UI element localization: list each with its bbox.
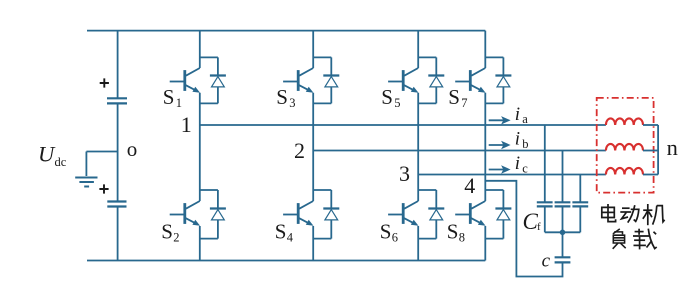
wire DC-link vertical [117, 31, 119, 261]
capacitor Cf3 [572, 202, 588, 206]
svg-text:c: c [522, 161, 528, 175]
wire drop phase c to Cf3 [579, 175, 581, 203]
svg-text:S: S [448, 85, 460, 109]
wire star to cap c [562, 232, 564, 257]
wire drop phase a to Cf1 [544, 125, 546, 202]
svg-text:S: S [161, 220, 173, 244]
diode D4 antiparallel with S4 [313, 190, 339, 239]
svg-text:b: b [522, 137, 528, 151]
svg-text:8: 8 [459, 231, 465, 245]
svg-text:7: 7 [461, 96, 467, 110]
plus sign upper [100, 78, 109, 87]
svg-text:4: 4 [287, 231, 294, 245]
label motor load text 载 [633, 229, 657, 250]
diode D3 antiparallel with S3 [313, 57, 339, 103]
wire top DC rail [87, 30, 485, 32]
IGBT S3 leg 2 upper [283, 31, 313, 261]
svg-text:dc: dc [55, 155, 67, 169]
capacitor Cf1 [537, 202, 553, 206]
capacitor c [555, 257, 571, 262]
svg-text:S: S [381, 85, 393, 109]
inductor coil phase c [606, 168, 643, 175]
wire drop phase b to Cf2 [562, 151, 564, 203]
wire o-node to ground [86, 152, 117, 177]
IGBT S1 leg 1 upper [170, 31, 200, 261]
svg-text:U: U [38, 142, 56, 167]
svg-text:i: i [515, 129, 520, 150]
arrow ic [489, 165, 511, 173]
diode D2 antiparallel with S2 [200, 190, 226, 239]
wire filter star bar [545, 231, 581, 233]
label motor load text 动 [620, 205, 639, 222]
label motor load text 电 [602, 204, 616, 222]
wire node 4 to filter neutral cap [485, 181, 562, 277]
junction star point [560, 230, 566, 236]
wire phase c (node 3) [418, 174, 606, 176]
diode D6 antiparallel with S6 [418, 190, 444, 239]
wire coil c to neutral bus [643, 174, 658, 176]
diode D1 antiparallel with S1 [200, 57, 226, 103]
plus sign lower [99, 184, 108, 193]
svg-text:S: S [276, 85, 288, 109]
diode D7 antiparallel with S7 [485, 57, 511, 103]
svg-text:i: i [515, 104, 520, 125]
capacitor upper DC-link [107, 98, 127, 103]
wire bottom DC rail [87, 260, 485, 262]
svg-text:o: o [127, 137, 138, 161]
capacitor lower DC-link [107, 202, 126, 207]
capacitor Cf2 [555, 202, 571, 206]
svg-text:S: S [275, 220, 287, 244]
svg-text:2: 2 [173, 231, 179, 245]
svg-text:n: n [667, 135, 678, 160]
wire neutral bus n [657, 125, 659, 175]
IGBT S2 leg 1 lower [170, 201, 200, 224]
svg-text:S: S [380, 220, 392, 244]
label motor load text 负 [613, 229, 626, 249]
wire coil b to neutral bus [643, 150, 658, 152]
red dashed box motor load [597, 98, 654, 193]
IGBT S8 leg 4 lower [455, 201, 485, 224]
svg-text:6: 6 [392, 231, 398, 245]
diode D8 antiparallel with S8 [485, 190, 511, 239]
ground [75, 178, 97, 187]
svg-text:2: 2 [294, 138, 305, 163]
IGBT S5 leg 3 upper [388, 31, 418, 261]
wire phase a (node 1) [200, 124, 606, 126]
wire coil a to neutral bus [643, 124, 658, 126]
inductor coil phase b [606, 144, 643, 151]
svg-text:3: 3 [289, 96, 295, 110]
arrow ib [489, 141, 511, 149]
svg-text:5: 5 [394, 96, 400, 110]
svg-text:f: f [537, 221, 541, 233]
IGBT S6 leg 3 lower [388, 201, 418, 224]
svg-text:i: i [515, 153, 520, 174]
svg-text:1: 1 [181, 112, 192, 137]
svg-text:3: 3 [399, 161, 410, 186]
svg-text:a: a [522, 112, 528, 126]
arrow ia [489, 116, 511, 124]
IGBT S7 leg 4 upper [455, 31, 485, 261]
label motor load text 机 [643, 204, 665, 225]
inductor coil phase a [606, 118, 643, 125]
svg-text:4: 4 [464, 173, 475, 198]
diode D5 antiparallel with S5 [418, 57, 444, 103]
svg-text:c: c [542, 251, 551, 272]
svg-text:1: 1 [176, 96, 182, 110]
svg-text:S: S [447, 220, 459, 244]
wire phase b (node 2) [313, 150, 606, 152]
IGBT S4 leg 2 lower [283, 201, 313, 224]
svg-text:S: S [163, 85, 175, 109]
